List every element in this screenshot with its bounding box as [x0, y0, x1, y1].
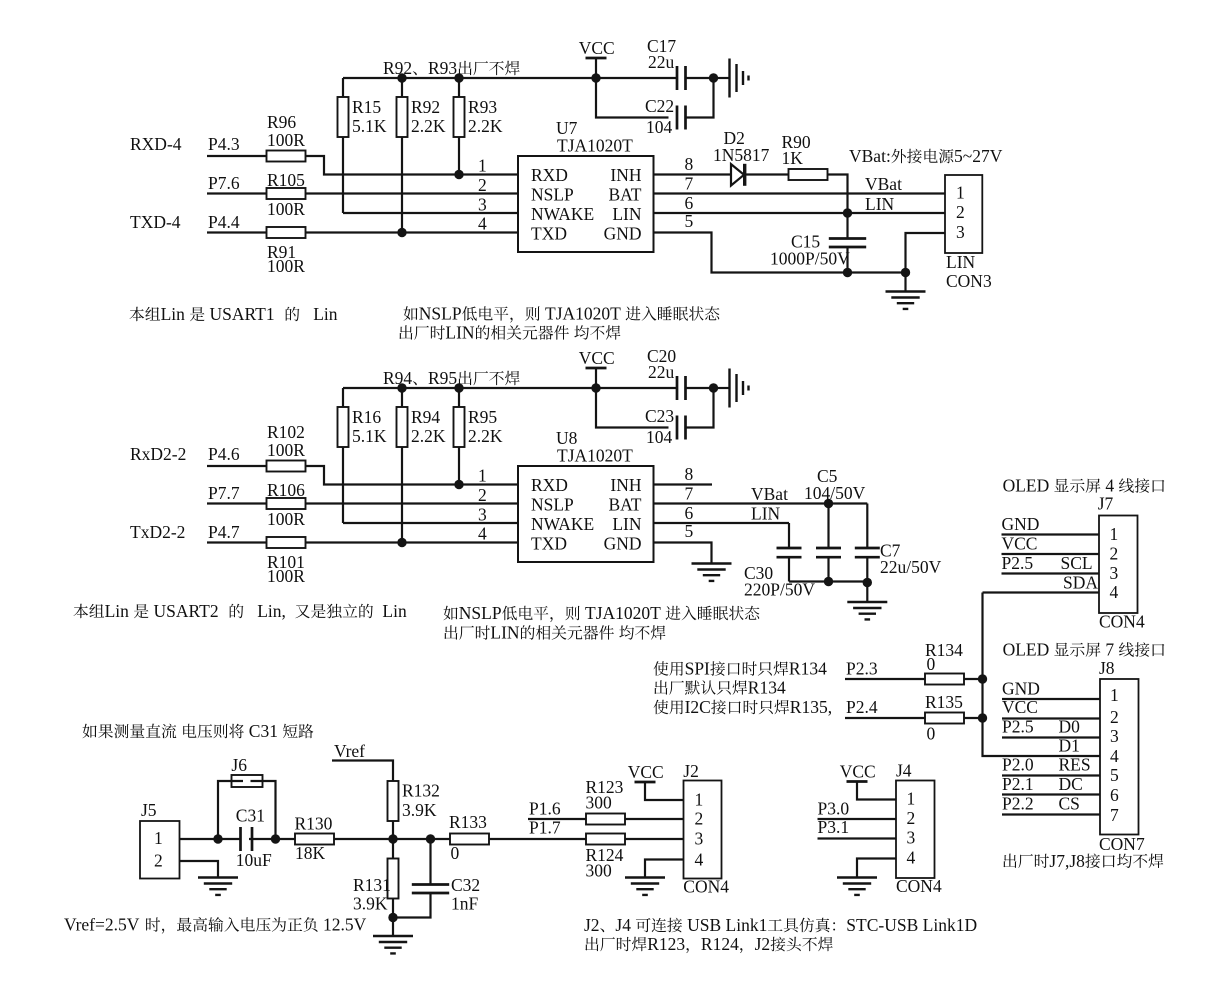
svg-text:R134: R134 — [748, 678, 786, 698]
svg-text:C23: C23 — [645, 406, 674, 426]
wire R134 to bus — [964, 678, 983, 680]
ground CON3 — [886, 292, 926, 309]
capacitor C22 104 — [645, 96, 686, 137]
note 本组Lin USART2 — [74, 604, 89, 619]
wire gnd stem — [904, 273, 906, 292]
junction cap/gnd — [709, 73, 718, 82]
svg-text:1: 1 — [1110, 685, 1119, 705]
svg-text:R123: R123 — [647, 934, 685, 954]
note 出厂时LIN 2 — [444, 625, 457, 639]
resistor R91 100R — [267, 227, 306, 276]
wire C20 to gnd — [686, 387, 714, 389]
svg-text:R96: R96 — [267, 112, 296, 132]
svg-text:C31: C31 — [249, 721, 278, 741]
wire P1.6 to R123 — [528, 818, 586, 820]
wire R95 to pin1 row — [458, 447, 460, 485]
svg-text:OLED: OLED — [1003, 476, 1050, 496]
svg-text:P2.4: P2.4 — [846, 697, 878, 717]
svg-text:R131: R131 — [353, 875, 391, 895]
chassis ground — [730, 59, 749, 98]
svg-text:5.1K: 5.1K — [352, 426, 387, 446]
svg-text:R92: R92 — [411, 97, 440, 117]
wire R106 to pin2 — [306, 502, 519, 504]
svg-text:J4: J4 — [615, 915, 631, 935]
power VCC J2 — [628, 762, 664, 782]
svg-text:R95: R95 — [468, 407, 497, 427]
resistor R102 100R — [267, 422, 306, 472]
svg-text:104: 104 — [646, 117, 673, 137]
junction bus/R92 — [397, 73, 406, 82]
wire C7 stem — [866, 504, 868, 549]
resistor R92 2.2K — [397, 97, 446, 137]
svg-text:100R: 100R — [267, 440, 305, 460]
note 出厂时J7J8 — [1003, 854, 1016, 868]
svg-text:RXD: RXD — [531, 475, 568, 495]
svg-text:TJA1020T: TJA1020T — [585, 603, 661, 623]
svg-text:3: 3 — [907, 828, 916, 848]
svg-text:C32: C32 — [451, 875, 480, 895]
svg-text:TXD: TXD — [531, 533, 567, 553]
wire VCC stem — [595, 368, 597, 388]
svg-text:LIN: LIN — [751, 504, 781, 524]
wire C23 up — [686, 388, 714, 428]
svg-text:P7.7: P7.7 — [208, 483, 240, 503]
svg-text:P1.7: P1.7 — [529, 818, 561, 838]
wire P4.6 to R102 — [207, 465, 267, 467]
wire VCC stem — [595, 58, 597, 78]
junction bus/R94 — [397, 383, 406, 392]
wire R131 to gnd node — [392, 899, 394, 918]
wire C5 bottom — [827, 557, 829, 581]
svg-text:RXD: RXD — [531, 165, 568, 185]
ground R131 — [373, 936, 413, 953]
svg-text:R94: R94 — [411, 407, 440, 427]
svg-text:USB Link1: USB Link1 — [687, 915, 767, 935]
svg-text:4: 4 — [907, 848, 916, 868]
junction gnd bus/CON3 — [901, 268, 910, 277]
wire C22 up — [686, 78, 714, 118]
wire C17 to gnd — [686, 77, 714, 79]
wire R92 stem — [401, 78, 403, 97]
svg-text:7: 7 — [1105, 640, 1114, 660]
svg-text:P3.1: P3.1 — [818, 817, 850, 837]
wire to chassis gnd — [714, 77, 730, 79]
svg-text:J7,J8: J7,J8 — [1049, 851, 1085, 871]
junction R135/bus — [978, 713, 987, 722]
junction VBat/C5 — [824, 499, 833, 508]
wire to chassis gnd — [714, 387, 730, 389]
capacitor C30 220P/50V — [744, 548, 815, 600]
note 出厂时LIN 1 — [399, 325, 412, 339]
svg-text:Vref=2.5V: Vref=2.5V — [64, 915, 140, 935]
wire pullup bus — [343, 77, 677, 79]
svg-text:100R: 100R — [267, 130, 305, 150]
svg-text:2: 2 — [154, 851, 163, 871]
svg-text:1: 1 — [154, 828, 163, 848]
svg-text:CON4: CON4 — [683, 877, 729, 897]
svg-text:VBat: VBat — [865, 174, 902, 194]
svg-text:R133: R133 — [449, 812, 487, 832]
svg-text:10uF: 10uF — [236, 850, 272, 870]
svg-text:R102: R102 — [267, 422, 305, 442]
svg-text:7: 7 — [1110, 805, 1119, 825]
chassis ground — [730, 369, 749, 408]
ground J4 — [837, 878, 877, 895]
wire C32 bottom — [393, 893, 431, 918]
svg-text:INH: INH — [610, 165, 641, 185]
svg-text:R92: R92 — [383, 58, 412, 78]
wire P4.7 to R101 — [207, 541, 267, 543]
svg-text:VCC: VCC — [840, 762, 876, 782]
wire cap gnd bus — [789, 580, 867, 582]
wire C7 gnd stem — [866, 582, 868, 603]
svg-text:300: 300 — [586, 793, 613, 813]
wire R130 to node — [334, 838, 450, 840]
svg-text:0: 0 — [927, 724, 936, 744]
svg-text:R94: R94 — [383, 368, 412, 388]
note 如果测量直流 — [83, 724, 97, 739]
svg-text:3.9K: 3.9K — [402, 800, 437, 820]
svg-text:NSLP: NSLP — [531, 494, 574, 514]
resistor R101 100R — [267, 537, 306, 586]
pin numbers 1-4 — [478, 466, 487, 544]
wire CS — [1002, 813, 1100, 815]
wire R135 to bus — [964, 717, 983, 719]
svg-text:2.2K: 2.2K — [468, 426, 503, 446]
svg-text:VCC: VCC — [1002, 534, 1038, 554]
svg-text:5~27V: 5~27V — [954, 146, 1003, 166]
junction C15/gnd bus — [843, 268, 852, 277]
wire P3.1 — [818, 837, 897, 839]
svg-text:GND: GND — [1002, 514, 1040, 534]
svg-text:3: 3 — [478, 505, 487, 525]
wire P2.4 to R135 — [845, 717, 925, 719]
pin numbers J8 — [1110, 685, 1119, 825]
wire R132 to node — [392, 821, 394, 839]
svg-text:OLED: OLED — [1003, 640, 1050, 660]
svg-text:6: 6 — [1110, 785, 1119, 805]
svg-text:INH: INH — [610, 475, 641, 495]
svg-text:1nF: 1nF — [451, 894, 479, 914]
note 使用SPI — [654, 661, 669, 675]
wire P4.4 to R91 — [207, 231, 267, 233]
svg-text:R106: R106 — [267, 480, 305, 500]
capacitor C20 22u — [647, 346, 686, 400]
svg-text:4: 4 — [1105, 476, 1114, 496]
svg-text:J8: J8 — [1099, 658, 1115, 678]
jumper J6 body — [232, 775, 263, 787]
svg-text:2: 2 — [956, 202, 965, 222]
pin numbers J4 — [907, 789, 916, 868]
svg-text:TJA1020T: TJA1020T — [557, 445, 633, 465]
svg-text:TJA1020T: TJA1020T — [545, 304, 621, 324]
junction R132/R131 node — [388, 834, 397, 843]
wire R15 to pin3 — [342, 137, 344, 213]
wire R93 to pin1 row — [458, 137, 460, 175]
svg-text:J4: J4 — [896, 761, 912, 781]
svg-text:4: 4 — [478, 524, 487, 544]
connector J5 body — [140, 821, 180, 879]
svg-text:R130: R130 — [295, 814, 333, 834]
svg-text:J7: J7 — [1098, 494, 1114, 514]
svg-text:6: 6 — [685, 503, 694, 523]
svg-text:P2.0: P2.0 — [1002, 755, 1034, 775]
svg-text:7: 7 — [685, 484, 694, 504]
wire J4 pin4 to gnd — [857, 859, 896, 878]
svg-text:P2.5: P2.5 — [1002, 553, 1034, 573]
svg-text:P2.1: P2.1 — [1002, 774, 1034, 794]
junction R95/RXD row — [454, 480, 463, 489]
svg-text:D1: D1 — [1059, 736, 1080, 756]
svg-text:0: 0 — [451, 843, 460, 863]
resistor R130 18K — [295, 814, 335, 864]
svg-text:2.2K: 2.2K — [411, 116, 446, 136]
svg-text:SCL: SCL — [1061, 553, 1093, 573]
svg-text:R15: R15 — [352, 97, 381, 117]
svg-text:R93: R93 — [468, 97, 497, 117]
junction LIN/C15 — [843, 208, 852, 217]
wire C31 to R130 — [249, 838, 295, 840]
svg-text:0: 0 — [927, 654, 936, 674]
wire C5 stem — [827, 504, 829, 549]
svg-text:R132: R132 — [402, 781, 440, 801]
connector J7 body — [1099, 516, 1138, 614]
svg-text:NSLP: NSLP — [531, 184, 574, 204]
wire R133 to R124 — [489, 838, 586, 840]
svg-text:TxD2-2: TxD2-2 — [130, 522, 185, 542]
svg-text:BAT: BAT — [608, 184, 641, 204]
wire VCC J7 — [1002, 553, 1100, 555]
op-amp / IC U8 TJA1020T body — [518, 466, 654, 562]
capacitor C15 1000P/50V — [770, 232, 866, 269]
resistor R96 100R — [267, 112, 306, 162]
svg-text:1: 1 — [695, 790, 704, 810]
svg-text:R135,: R135, — [790, 697, 832, 717]
svg-text:TXD-4: TXD-4 — [130, 212, 181, 232]
wire BAT pin7 to CON3 pin1 — [654, 192, 946, 194]
svg-text:3: 3 — [1110, 563, 1119, 583]
svg-text:TJA1020T: TJA1020T — [557, 135, 633, 155]
svg-text:Lin,: Lin, — [257, 601, 286, 621]
resistor R95 2.2K — [454, 407, 503, 447]
pin numbers 1-4 — [478, 156, 487, 234]
wire R16 stem — [342, 388, 344, 407]
capacitor C23 104 — [645, 406, 686, 447]
wire C30 stem — [788, 523, 790, 548]
wire R96 to pin1 — [306, 156, 519, 175]
ground J5 — [198, 878, 238, 895]
svg-text:DC: DC — [1059, 774, 1083, 794]
wire node to R131 — [392, 839, 394, 859]
svg-text:R134: R134 — [789, 659, 827, 679]
svg-text:1000P/50V: 1000P/50V — [770, 249, 850, 269]
junction bus/R95 — [454, 383, 463, 392]
wire R95 stem — [458, 388, 460, 407]
ground caps — [847, 602, 887, 619]
svg-text:R135: R135 — [925, 692, 963, 712]
svg-text:P3.0: P3.0 — [818, 799, 850, 819]
svg-text:3.9K: 3.9K — [353, 894, 388, 914]
wire P7.6 to R105 — [207, 192, 267, 194]
junction VCC/bus — [591, 73, 600, 82]
wire J5 pin1 — [180, 838, 241, 840]
resistor R131 3.9K — [353, 859, 399, 914]
junction R92/TXD row — [397, 228, 406, 237]
wire C7 bottom — [866, 557, 868, 583]
resistor R93 2.2K — [454, 97, 503, 137]
svg-text:100R: 100R — [267, 566, 305, 586]
wire R15 stem — [342, 78, 344, 97]
svg-text:100R: 100R — [267, 256, 305, 276]
svg-text:22u/50V: 22u/50V — [880, 557, 942, 577]
wire SCL — [1002, 572, 1100, 574]
svg-text:USART2: USART2 — [154, 601, 219, 621]
diode D2 1N5817 — [713, 128, 770, 186]
svg-text:P2.3: P2.3 — [846, 659, 878, 679]
svg-text:J5: J5 — [141, 800, 157, 820]
svg-text:1N5817: 1N5817 — [713, 145, 770, 165]
svg-text:3: 3 — [478, 195, 487, 215]
pin numbers 8-5 — [685, 154, 694, 231]
wire R94 stem — [401, 388, 403, 407]
wire R101 to pin4 — [306, 541, 519, 543]
svg-text:Lin: Lin — [382, 601, 407, 621]
svg-text:VCC: VCC — [579, 348, 615, 368]
op-amp / IC U7 TJA1020T body — [518, 156, 654, 252]
svg-text:J2: J2 — [755, 934, 771, 954]
svg-text:2: 2 — [907, 808, 916, 828]
svg-text:GND: GND — [604, 533, 642, 553]
svg-text:1: 1 — [956, 183, 965, 203]
wire P4.3 to R96 — [207, 155, 267, 157]
svg-text:VBat: VBat — [751, 484, 788, 504]
svg-text:CS: CS — [1059, 794, 1080, 814]
svg-text:J2: J2 — [683, 761, 699, 781]
wire R90 down to LIN row — [828, 175, 848, 214]
svg-text:SDA: SDA — [1063, 573, 1098, 593]
svg-text:LIN: LIN — [946, 252, 976, 272]
junction bus/R93 — [454, 73, 463, 82]
svg-text:3: 3 — [956, 222, 965, 242]
wire Vref — [332, 761, 393, 782]
svg-text:R95: R95 — [428, 368, 457, 388]
junction R94/TXD row — [397, 538, 406, 547]
wire P7.7 to R106 — [207, 502, 267, 504]
svg-text:4: 4 — [1110, 582, 1119, 602]
wire VCC J8 — [1002, 717, 1100, 719]
power VCC — [579, 38, 615, 58]
resistor R134 0 — [925, 640, 964, 685]
svg-text:Lin: Lin — [161, 304, 186, 324]
svg-text:8: 8 — [685, 154, 694, 174]
svg-text:J6: J6 — [231, 755, 247, 775]
svg-text:VCC: VCC — [628, 762, 664, 782]
ground U8 GND — [692, 564, 732, 581]
wire GND pin5 — [654, 233, 906, 273]
svg-text:NSLP: NSLP — [459, 603, 502, 623]
wire P3.0 — [818, 818, 897, 820]
wire R123 to J2 pin2 — [625, 818, 684, 820]
resistor R132 3.9K — [388, 781, 440, 822]
junction R134/bus — [978, 674, 987, 683]
wire C32 stem — [429, 839, 431, 885]
wire U8 pin8 stub — [654, 483, 713, 485]
power VCC J4 — [840, 762, 876, 782]
svg-text:P2.5: P2.5 — [1002, 717, 1034, 737]
svg-text:5.1K: 5.1K — [352, 116, 387, 136]
svg-text:USART1: USART1 — [210, 304, 275, 324]
pin numbers J7 — [1110, 524, 1119, 602]
svg-text:BAT: BAT — [608, 494, 641, 514]
resistor R123 300 — [586, 777, 626, 825]
svg-text:2: 2 — [478, 175, 487, 195]
svg-text:GND: GND — [604, 223, 642, 243]
note 如NSLP低电平 2 — [444, 606, 458, 621]
svg-text:1K: 1K — [782, 148, 804, 168]
svg-text:2.2K: 2.2K — [411, 426, 446, 446]
svg-text:100R: 100R — [267, 509, 305, 529]
wire R105 to pin2 — [306, 192, 519, 194]
wire J6 left — [218, 781, 243, 839]
wire RES — [1002, 774, 1100, 776]
resistor R94 2.2K — [397, 407, 446, 447]
svg-text:2: 2 — [1110, 707, 1119, 727]
svg-text:18K: 18K — [295, 843, 326, 863]
wire C15 top stem — [846, 213, 848, 239]
svg-text:NWAKE: NWAKE — [531, 204, 594, 224]
svg-text:Lin: Lin — [105, 601, 130, 621]
svg-text:GND: GND — [1002, 679, 1040, 699]
wire DC — [1002, 793, 1100, 795]
svg-text:P4.6: P4.6 — [208, 444, 240, 464]
wire J5 pin2 to gnd — [180, 861, 219, 878]
wire R93 stem — [458, 78, 460, 97]
svg-text:TXD: TXD — [531, 223, 567, 243]
svg-text:3: 3 — [695, 829, 704, 849]
svg-text:R16: R16 — [352, 407, 381, 427]
capacitor C7 22u/50V — [855, 541, 942, 578]
note 出厂默认 — [654, 680, 667, 694]
svg-text:RXD-4: RXD-4 — [130, 134, 182, 154]
svg-text:Vref: Vref — [334, 741, 365, 761]
junction C32 top — [426, 834, 435, 843]
pin numbers 8-5 — [685, 464, 694, 541]
svg-text:P4.7: P4.7 — [208, 522, 240, 542]
svg-text:C31: C31 — [236, 806, 265, 826]
svg-text:VBat:: VBat: — [849, 146, 891, 166]
wire U8 GND pin5 — [654, 543, 712, 564]
wire pullup bus — [343, 387, 677, 389]
svg-text:4: 4 — [1110, 746, 1119, 766]
svg-text:J2: J2 — [584, 915, 600, 935]
svg-text:VCC: VCC — [579, 38, 615, 58]
svg-text:300: 300 — [586, 861, 613, 881]
svg-text:C22: C22 — [645, 96, 674, 116]
wire LIN pin6 to CON3 pin2 — [654, 212, 946, 214]
resistor R105 100R — [267, 170, 306, 219]
wire C23 branch — [596, 388, 669, 428]
svg-text:2: 2 — [695, 809, 704, 829]
junction C7/gnd bus — [863, 578, 872, 587]
svg-text:I2C: I2C — [685, 697, 711, 717]
resistor R124 300 — [586, 834, 626, 881]
pin numbers J2 — [695, 790, 704, 870]
svg-text:2: 2 — [478, 485, 487, 505]
svg-text:RxD2-2: RxD2-2 — [130, 444, 186, 464]
wire GND J7 — [1002, 533, 1100, 535]
note 出厂时焊R123 — [585, 937, 598, 951]
svg-text:VCC: VCC — [1002, 697, 1038, 717]
